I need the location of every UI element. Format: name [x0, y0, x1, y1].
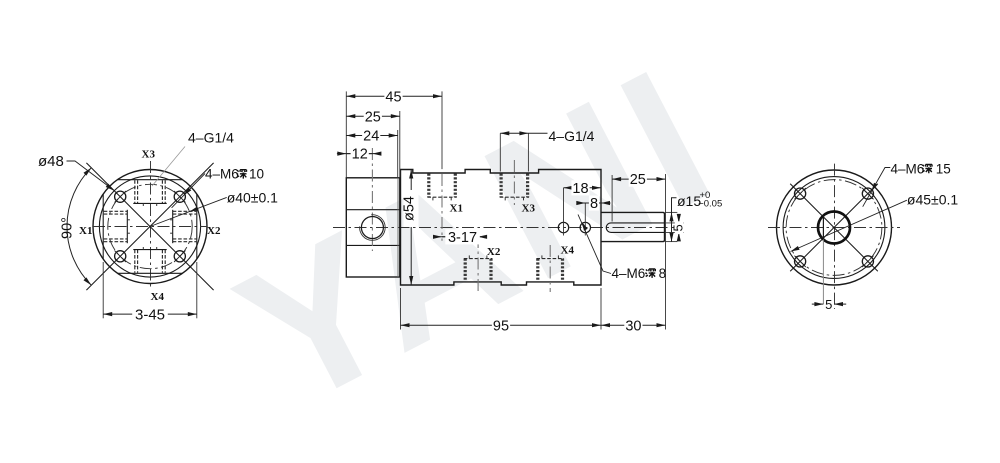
4-M6 depth 8 leader: [578, 215, 611, 274]
svg-text:3-17: 3-17: [448, 230, 477, 246]
port flat chord bottom: [118, 272, 183, 274]
4-G1/4 leader (left view, light): [152, 147, 185, 187]
dimension 24: [346, 135, 397, 137]
keyway 5 dimension: [812, 303, 824, 305]
dimension 25 shaft: [612, 178, 665, 180]
dimension 12: [346, 153, 372, 155]
dimension 18: [564, 187, 602, 189]
svg-text:5: 5: [671, 224, 686, 231]
left view diagonal centerline A: [86, 163, 213, 290]
M6 tapped hole (right view) #3: [795, 256, 806, 267]
svg-text:15: 15: [936, 161, 951, 176]
flange port vertical centerline: [371, 148, 373, 251]
dimension 25: [346, 115, 400, 117]
svg-text:3-45: 3-45: [135, 306, 165, 323]
right view bolt circle dia 45 (dash-dot): [786, 180, 882, 276]
extension line x=442 (45): [441, 91, 443, 169]
svg-text:30: 30: [625, 318, 641, 334]
svg-text:90°: 90°: [60, 217, 76, 239]
svg-text:18: 18: [572, 181, 588, 197]
dia 15 dimension: [665, 211, 677, 213]
svg-text:25: 25: [365, 109, 381, 125]
svg-text:X2: X2: [207, 225, 221, 237]
dia 45 leader: [791, 200, 907, 251]
M6 tapped hole (right view) #1: [795, 188, 806, 199]
svg-text:X3: X3: [142, 149, 156, 161]
right view vertical centerline: [834, 164, 836, 309]
svg-text:24: 24: [363, 129, 379, 145]
svg-text:X2: X2: [487, 246, 501, 258]
svg-text:ø40±0.1: ø40±0.1: [227, 190, 278, 206]
dimension 30: [601, 324, 666, 326]
flange step line (24 vs 25): [397, 178, 399, 277]
right view inner circle: [783, 177, 885, 279]
flange G1/4 port hole circle: [361, 217, 383, 239]
dimension 8: [585, 202, 601, 204]
port flat chord right: [196, 194, 198, 259]
slot width 5 dimension: [665, 222, 684, 224]
port flat chord top: [118, 179, 183, 181]
port X1 centerline: [441, 174, 443, 241]
port X2 rectangle (right, end view): [173, 210, 197, 212]
M6 tapped hole (right view) #2: [862, 188, 873, 199]
M6 tapped hole (end view) #3: [115, 251, 126, 262]
port X1 rectangle (left, end view): [104, 210, 128, 212]
long extension line shaft right: [665, 174, 667, 330]
svg-text:X4: X4: [561, 245, 575, 257]
90 degree arc dimension: [67, 168, 91, 285]
left end view: flange circle: [93, 170, 207, 284]
extension line hole1 (18): [563, 188, 565, 220]
extension lines for 95/30: [400, 288, 402, 330]
3-45 dimension: [103, 313, 197, 315]
dimension 3-17: [442, 236, 478, 238]
M6 side hole 2: [580, 222, 590, 232]
svg-text:8: 8: [659, 266, 667, 281]
M6 side hole 1: [558, 222, 568, 232]
right view diagonal centerline A: [790, 184, 878, 272]
svg-text:5: 5: [825, 297, 832, 312]
port X3 centerline: [513, 160, 515, 205]
port flat chord left: [102, 194, 104, 259]
flange inner horizontal lines: [346, 209, 400, 211]
svg-text:4–M6: 4–M6: [891, 161, 925, 176]
M6 tapped hole (end view) #2: [174, 191, 185, 202]
main body outline with port flats (side view): [401, 170, 602, 286]
keyway chord: [822, 216, 824, 240]
port X4 centerline: [549, 245, 551, 292]
dimension 95: [401, 324, 602, 326]
port X1 (side view, top): [427, 174, 430, 198]
M6 tapped hole (right view) #4: [862, 256, 873, 267]
keyway extension line: [822, 240, 824, 305]
svg-text:X1: X1: [79, 225, 92, 237]
svg-text:ø45±0.1: ø45±0.1: [907, 192, 958, 208]
extension line slot left (25): [611, 175, 613, 222]
svg-text:X1: X1: [450, 203, 463, 215]
dimension 45: [346, 95, 442, 97]
svg-text:X3: X3: [522, 203, 536, 215]
svg-text:95: 95: [493, 318, 509, 334]
svg-text:45: 45: [385, 89, 401, 105]
dimension dia 54 (vertical): [410, 170, 412, 286]
M6 tapped hole (end view) #1: [115, 191, 126, 202]
left view horizontal centerline: [93, 226, 207, 228]
port X4 (side view, bottom): [536, 259, 539, 282]
port X2 (side view, bottom): [464, 259, 467, 282]
svg-text:4–M6: 4–M6: [205, 167, 239, 182]
dia 40 leader: [150, 197, 227, 226]
main horizontal centerline (side view): [333, 227, 680, 229]
dia 48 leader: [67, 161, 114, 190]
extension line x=399.8 (25): [399, 111, 401, 177]
svg-text:25: 25: [630, 172, 646, 188]
port X2 centerline: [477, 236, 479, 292]
shaft bore circle (bold, dia 15): [818, 212, 850, 244]
svg-text:10: 10: [249, 167, 264, 182]
shaft slot (keyway): [606, 223, 664, 233]
svg-text:4–G1/4: 4–G1/4: [188, 129, 234, 145]
left view inner circle (boss dia 48): [99, 176, 200, 277]
left view diagonal centerline B: [86, 163, 213, 290]
svg-text:ø54: ø54: [402, 196, 418, 221]
svg-text:8: 8: [590, 196, 598, 212]
3-45 dimension extension lines: [102, 262, 104, 318]
4-G1/4 callout (side view): [499, 133, 501, 171]
svg-text:ø48: ø48: [38, 153, 64, 170]
extension line hole2 (8): [584, 203, 586, 220]
right end view: outer circle: [777, 170, 892, 285]
svg-text:−0.05: −0.05: [698, 199, 722, 210]
flange outline (side view): [346, 178, 400, 277]
right view horizontal centerline: [768, 227, 900, 229]
M6 tapped hole (end view) #4: [174, 251, 185, 262]
4-M6 depth 15 leader: [863, 168, 891, 207]
svg-text:X4: X4: [151, 291, 165, 303]
shaft outline (side view): [601, 212, 665, 241]
port X3 (side view, top): [500, 174, 503, 198]
svg-text:4–M6: 4–M6: [612, 266, 646, 281]
left view bolt circle dia 40 (dash-dot): [108, 184, 192, 268]
svg-text:12: 12: [352, 147, 368, 163]
extension line x=397.7 (24): [397, 130, 399, 177]
port X3 rectangle (top, end view): [134, 180, 136, 203]
extension line flange left / dims: [345, 91, 347, 177]
right view diagonal centerline B: [790, 184, 878, 272]
flange G1/4 thread arc: [360, 215, 386, 241]
left view vertical centerline: [150, 161, 152, 289]
4-M6 depth 10 leader: [172, 174, 205, 208]
svg-text:4–G1/4: 4–G1/4: [549, 128, 595, 144]
port X4 rectangle (bottom, end view): [134, 250, 136, 273]
